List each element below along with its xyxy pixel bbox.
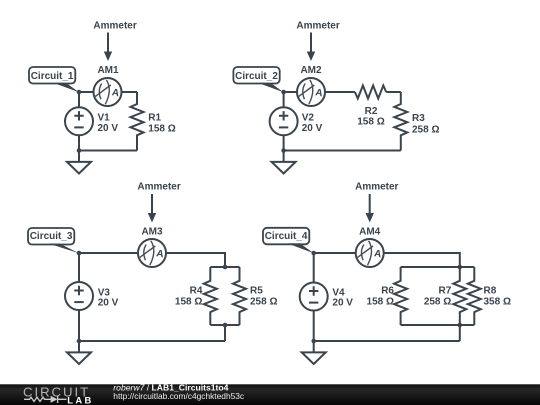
callout Circuit_2 tail [258, 83, 284, 92]
svg-text:AM1: AM1 [97, 65, 119, 76]
Ammeter pointer arrow C3 [148, 194, 156, 223]
svg-text:Circuit_4: Circuit_4 [265, 231, 308, 242]
svg-text:Circuit_3: Circuit_3 [30, 231, 73, 242]
ground C4 [302, 341, 326, 364]
wire node1 to AM1 left [79, 91, 94, 93]
wire AM1 right to R1 top [122, 91, 138, 93]
svg-text:20 V: 20 V [302, 123, 323, 134]
node B2 junction dot [281, 148, 286, 153]
callout Circuit_4 tail [288, 243, 314, 253]
wire R2 right to corner [386, 91, 401, 93]
svg-text:R4: R4 [190, 286, 203, 297]
wire bottom C1 [79, 150, 137, 152]
bottom rail C3 [210, 324, 239, 326]
svg-text:20 V: 20 V [98, 123, 119, 134]
ammeter AM1 [94, 78, 122, 106]
wire node down to V4 [313, 253, 315, 283]
node B1 junction dot [281, 90, 286, 95]
resistor R6 [394, 267, 407, 325]
svg-text:R8: R8 [484, 286, 497, 297]
voltage source V4 [300, 283, 328, 311]
wire AM4 right to junction [384, 253, 460, 267]
ground C1 [67, 151, 91, 174]
node C4 rail-top junction dot [458, 265, 463, 270]
svg-text:Circuit_1: Circuit_1 [31, 71, 74, 82]
logo diode triangle [51, 396, 58, 403]
svg-text:358 Ω: 358 Ω [484, 297, 511, 308]
wire node to AM3 left [79, 252, 138, 254]
ammeter AM2 [297, 78, 325, 106]
node C3 rail-bottom junction dot [223, 323, 228, 328]
resistor R7 [453, 267, 466, 325]
svg-text:V1: V1 [98, 113, 111, 124]
top rail C4 [401, 266, 475, 268]
stub to bottom wire C4 [459, 325, 461, 341]
svg-text:158 Ω: 158 Ω [175, 297, 202, 308]
resistor R3 [394, 92, 407, 151]
svg-text:258 Ω: 258 Ω [424, 297, 451, 308]
wire AM3 right to junction [166, 253, 225, 267]
svg-text:R7: R7 [439, 286, 452, 297]
footer background bar [0, 384, 540, 405]
wire node down to V3 [78, 253, 80, 282]
wire bottom C2 [284, 150, 401, 152]
svg-text:Ammeter: Ammeter [355, 181, 398, 192]
wire node to AM2 left [284, 91, 297, 93]
callout Circuit_3 tail [49, 244, 80, 254]
Ammeter pointer arrow C2 [307, 33, 315, 62]
callout Circuit_1 tail [54, 83, 80, 92]
node C4 bottom junction dot [311, 339, 316, 344]
top rail C3 [210, 266, 239, 268]
svg-text:258 Ω: 258 Ω [250, 297, 277, 308]
bottom wire C4 [314, 340, 460, 342]
svg-text:Ammeter: Ammeter [296, 21, 339, 32]
node C3 bottom junction dot [77, 339, 82, 344]
node A1 top junction dot [77, 90, 82, 95]
wire V4 bottom to node [313, 311, 315, 342]
Ammeter pointer arrow C4 [366, 194, 374, 223]
svg-text:V2: V2 [302, 113, 315, 124]
voltage source V2 [270, 107, 298, 135]
stub to bottom wire C3 [224, 325, 226, 341]
Ammeter pointer arrow C1 [104, 33, 112, 62]
node C3 rail-top junction dot [223, 265, 228, 270]
svg-text:20 V: 20 V [332, 298, 353, 309]
svg-text:20 V: 20 V [98, 298, 119, 309]
bottom rail C4 [401, 324, 475, 326]
resistor R2 [355, 86, 386, 99]
resistor R8 [468, 267, 481, 325]
svg-text:158 Ω: 158 Ω [148, 123, 175, 134]
node C3 top junction dot [77, 251, 82, 256]
node C4 top junction dot [311, 251, 316, 256]
callout Circuit_3 box [28, 228, 74, 245]
svg-text:LAB: LAB [67, 395, 93, 405]
resistor R4 [204, 267, 217, 325]
logo circuit wire with resistor and diode [24, 396, 67, 403]
svg-text:158 Ω: 158 Ω [357, 116, 384, 127]
resistor R5 [233, 267, 246, 325]
svg-text:AM4: AM4 [359, 226, 381, 237]
callout Circuit_4 box [263, 228, 309, 245]
wire node down to V2 [283, 92, 285, 107]
wire V3 bottom to node [78, 310, 80, 341]
svg-text:R5: R5 [250, 286, 263, 297]
svg-text:158 Ω: 158 Ω [367, 297, 394, 308]
ammeter AM3 [138, 239, 166, 267]
svg-text:Ammeter: Ammeter [137, 181, 180, 192]
callout Circuit_1 box [29, 67, 75, 84]
wire node to AM4 left [314, 252, 356, 254]
svg-text:258 Ω: 258 Ω [412, 124, 439, 135]
wire node1 down to V1 [78, 92, 80, 107]
wire V2 bottom to node2 [283, 135, 285, 150]
ground C2 [272, 151, 296, 174]
svg-text:R3: R3 [412, 113, 425, 124]
voltage source V1 [65, 107, 93, 135]
svg-text:R2: R2 [365, 106, 378, 117]
svg-text:AM2: AM2 [300, 65, 322, 76]
node A2 bottom junction dot [77, 148, 82, 153]
svg-text:Ammeter: Ammeter [93, 21, 136, 32]
node C4 rail-bottom junction dot [458, 323, 463, 328]
svg-text:AM3: AM3 [141, 226, 163, 237]
wire AM2 right to R2 [325, 91, 355, 93]
voltage source V3 [65, 282, 93, 310]
callout Circuit_2 box [233, 67, 279, 84]
svg-text:Circuit_2: Circuit_2 [235, 71, 278, 82]
resistor R1 [131, 92, 144, 151]
ammeter AM4 [356, 239, 384, 267]
svg-text:http://circuitlab.com/c4gchkte: http://circuitlab.com/c4gchktedh53c [113, 391, 244, 401]
bottom wire C3 [79, 340, 225, 342]
ground C3 [67, 341, 91, 364]
wire V1 bottom to node2 [78, 135, 80, 150]
svg-text:R1: R1 [148, 113, 161, 124]
svg-text:R6: R6 [381, 286, 394, 297]
